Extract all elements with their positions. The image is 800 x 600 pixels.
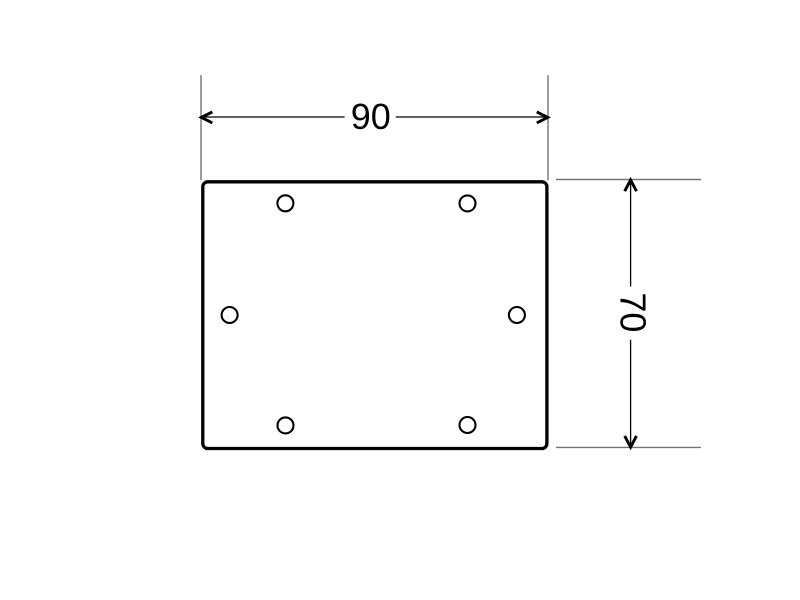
hole top-right [460,195,476,211]
extension line right (width dim) [547,75,549,180]
hole mid-right [509,307,525,323]
arrowhead top of 70 dim [625,180,637,191]
svg-text:90: 90 [351,96,391,137]
dimension line 90 (right segment) [396,116,548,118]
svg-text:70: 70 [612,292,653,332]
hole bottom-left [278,417,294,433]
plate outline [203,182,547,449]
arrowhead bottom of 70 dim [625,436,637,447]
dimension line 90 (left segment) [201,116,345,118]
dimension line 70 (bottom segment) [630,340,632,448]
extension line left (width dim) [200,75,202,180]
hole top-left [277,195,293,211]
extension line bottom (height dim) [556,446,701,448]
hole mid-left [222,307,238,323]
dimension line 70 (top segment) [630,180,632,287]
arrowhead left of 90 dim [201,112,212,123]
hole bottom-right [460,417,476,433]
extension line top (height dim) [556,179,701,181]
arrowhead right of 90 dim [537,112,548,123]
